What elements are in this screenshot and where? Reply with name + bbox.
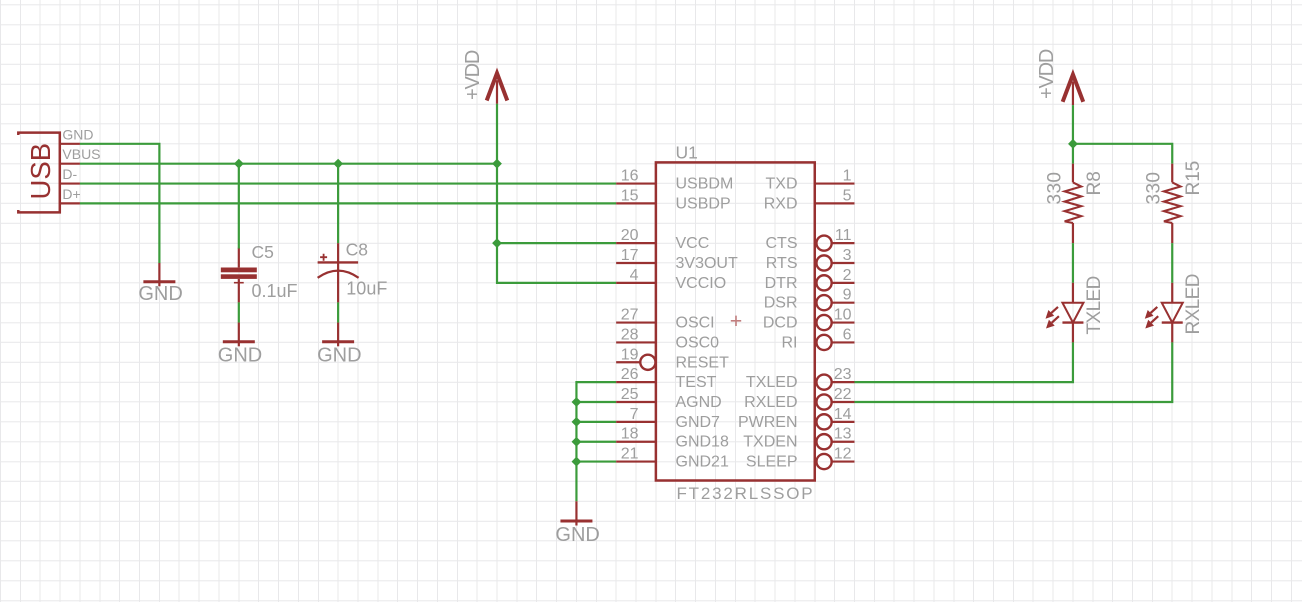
pin 13 TXDEN of U1 <box>816 434 831 449</box>
pin 26 TEST of U1 <box>616 381 656 383</box>
svg-text:13: 13 <box>834 426 852 443</box>
wire VBUS to C5 <box>238 164 240 249</box>
svg-text:GND21: GND21 <box>676 454 729 471</box>
svg-text:RXD: RXD <box>764 195 798 212</box>
pin 21 GND21 of U1 <box>616 460 656 462</box>
pin 12 SLEEP of U1 <box>816 454 831 469</box>
wire TXLED to pin 23 <box>854 342 1072 382</box>
svg-text:GND: GND <box>138 283 182 305</box>
pin 17 3V3OUT of U1 <box>616 262 656 264</box>
junction VBUS/C8 <box>333 159 343 169</box>
svg-text:9: 9 <box>843 287 852 304</box>
wire R8 to TXLED <box>1072 243 1074 283</box>
ground GND3 (C8) <box>322 323 354 347</box>
supply +VDD (left) arrow <box>487 73 508 104</box>
svg-text:RESET: RESET <box>676 354 730 371</box>
pin 14 PWREN of U1 <box>816 414 831 429</box>
wire C5 to ground <box>238 302 240 322</box>
pin 6 RI of U1 <box>816 335 831 350</box>
wire +VDD to VBUS/VCC/VCCIO <box>497 104 616 283</box>
svg-text:SLEEP: SLEEP <box>746 454 798 471</box>
svg-text:D-: D- <box>62 166 77 182</box>
svg-text:7: 7 <box>630 406 639 423</box>
svg-text:14: 14 <box>834 406 852 423</box>
svg-text:10uF: 10uF <box>346 278 387 298</box>
pin 28 OSC0 of U1 <box>616 341 656 343</box>
svg-text:21: 21 <box>621 446 639 463</box>
pin 23 TXLED of U1 <box>816 375 831 390</box>
svg-text:FT232RLSSOP: FT232RLSSOP <box>677 484 815 503</box>
svg-text:TXD: TXD <box>766 176 798 193</box>
wire USBDP net (D+ to pin 15) <box>80 202 616 204</box>
svg-text:RI: RI <box>782 334 798 351</box>
pin 15 USBDP of U1 <box>616 202 656 204</box>
pin VBUS of USB connector <box>60 163 80 165</box>
svg-text:TXLED: TXLED <box>1084 276 1105 334</box>
pin 16 USBDM of U1 <box>616 182 656 184</box>
junction chain/25 <box>572 397 582 407</box>
LED TXLED <box>1072 283 1074 303</box>
wire GND21 to chain <box>576 460 616 462</box>
svg-text:5: 5 <box>843 187 852 204</box>
svg-text:330: 330 <box>1144 172 1165 205</box>
junction chain/21 <box>572 457 582 467</box>
wire VDD to R15 branch <box>1073 144 1172 164</box>
svg-text:TEST: TEST <box>676 374 717 391</box>
junction chain/7 <box>572 417 582 427</box>
svg-text:CTS: CTS <box>766 235 798 252</box>
svg-text:VCCIO: VCCIO <box>676 275 727 292</box>
pin 19 RESET of U1 <box>616 361 640 363</box>
svg-text:10: 10 <box>834 307 852 324</box>
svg-text:U1: U1 <box>676 142 698 162</box>
IC U1 origin cross <box>731 316 741 326</box>
svg-text:DSR: DSR <box>764 295 798 312</box>
pin 20 VCC of U1 <box>616 242 656 244</box>
pin D- of USB connector <box>60 182 80 184</box>
pin 10 DCD of U1 <box>816 315 831 330</box>
svg-text:28: 28 <box>621 326 639 343</box>
svg-text:22: 22 <box>834 386 852 403</box>
svg-text:+VDD: +VDD <box>462 50 484 100</box>
svg-text:USB: USB <box>25 143 56 200</box>
svg-text:16: 16 <box>621 168 639 185</box>
svg-text:GND: GND <box>555 524 599 546</box>
pin 22 RXLED of U1 <box>816 394 831 409</box>
svg-text:RXLED: RXLED <box>1183 274 1204 334</box>
resistor R15 <box>1171 164 1173 183</box>
svg-text:USBDP: USBDP <box>676 195 731 212</box>
pin 27 OSCI of U1 <box>616 321 656 323</box>
svg-text:11: 11 <box>835 227 852 244</box>
svg-text:VBUS: VBUS <box>62 146 100 162</box>
junction VDD/VCC <box>492 238 502 248</box>
pin 3 RTS of U1 <box>816 255 831 270</box>
svg-text:6: 6 <box>843 326 852 343</box>
supply +VDD (right) arrow <box>1063 75 1084 106</box>
wire VBUS net <box>80 163 497 165</box>
svg-text:3: 3 <box>843 247 852 264</box>
svg-text:27: 27 <box>621 307 639 324</box>
wire VCC branch to pin 20 <box>497 242 616 244</box>
svg-text:2: 2 <box>843 267 852 284</box>
svg-text:RTS: RTS <box>766 255 798 272</box>
svg-text:3V3OUT: 3V3OUT <box>676 255 738 272</box>
svg-text:PWREN: PWREN <box>738 414 798 431</box>
svg-text:D+: D+ <box>62 186 80 202</box>
svg-text:1: 1 <box>843 168 852 185</box>
pin 11 CTS of U1 <box>816 236 831 251</box>
svg-text:25: 25 <box>621 386 639 403</box>
junction chain/18 <box>572 437 582 447</box>
svg-text:0.1uF: 0.1uF <box>252 281 298 301</box>
IC U1 box <box>656 162 815 480</box>
svg-text:GND18: GND18 <box>676 434 729 451</box>
LED RXLED <box>1171 283 1173 303</box>
wire +VDD down to junction <box>1072 105 1074 144</box>
connector X1 USB body <box>18 133 60 213</box>
pin GND of USB connector <box>60 143 80 145</box>
wire GND18 to chain <box>576 441 616 443</box>
svg-text:12: 12 <box>834 446 852 463</box>
junction VBUS/C5 <box>234 159 244 169</box>
junction +VDD/VBUS <box>492 159 502 169</box>
svg-text:OSCI: OSCI <box>676 315 715 332</box>
ground GND4 (IC) <box>560 501 592 525</box>
wire GND net from USB <box>80 144 159 263</box>
svg-text:GND7: GND7 <box>676 414 721 431</box>
svg-text:DTR: DTR <box>765 275 798 292</box>
svg-text:R8: R8 <box>1084 171 1105 195</box>
wire C8 to ground <box>337 302 339 322</box>
svg-text:330: 330 <box>1044 172 1065 205</box>
svg-text:17: 17 <box>621 247 639 264</box>
svg-text:GND: GND <box>62 126 93 142</box>
svg-text:C8: C8 <box>346 240 368 260</box>
resistor R8 <box>1072 164 1074 183</box>
ground GND2 (C5) <box>223 323 255 347</box>
wire RXLED to pin 22 <box>854 342 1172 402</box>
capacitor C8 (polarized) <box>318 243 359 302</box>
wire USBDM net (D- to pin 16) <box>80 182 616 184</box>
pin 5 RXD of U1 <box>815 202 855 204</box>
svg-text:R15: R15 <box>1183 161 1204 196</box>
svg-text:+VDD: +VDD <box>1036 49 1058 99</box>
svg-text:RXLED: RXLED <box>744 394 797 411</box>
wire VBUS to C8 <box>337 164 339 243</box>
pin 18 GND18 of U1 <box>616 441 656 443</box>
capacitor C5 <box>234 248 244 303</box>
svg-text:20: 20 <box>621 227 639 244</box>
wire R15 to RXLED <box>1171 243 1173 283</box>
svg-text:26: 26 <box>621 366 639 383</box>
svg-text:DCD: DCD <box>763 315 798 332</box>
svg-text:C5: C5 <box>252 242 274 262</box>
svg-text:4: 4 <box>630 267 639 284</box>
pin D+ of USB connector <box>60 202 80 204</box>
ground GND1 (USB shield) <box>143 263 175 286</box>
pin 4 VCCIO of U1 <box>616 282 656 284</box>
svg-text:GND: GND <box>317 345 361 367</box>
svg-text:GND: GND <box>218 345 262 367</box>
svg-text:VCC: VCC <box>676 235 710 252</box>
junction VDD split <box>1068 139 1078 149</box>
wire VDD to R8 <box>1072 144 1074 164</box>
svg-text:23: 23 <box>834 366 852 383</box>
svg-text:OSC0: OSC0 <box>676 334 720 351</box>
svg-text:19: 19 <box>621 346 639 363</box>
pin 1 TXD of U1 <box>815 182 855 184</box>
svg-text:AGND: AGND <box>676 394 722 411</box>
wire GND7 to chain <box>576 421 616 423</box>
svg-text:15: 15 <box>621 187 639 204</box>
wire AGND to chain <box>576 401 616 403</box>
pin 9 DSR of U1 <box>816 295 831 310</box>
pin 2 DTR of U1 <box>816 275 831 290</box>
wire TEST/AGND/GND chain <box>576 382 616 501</box>
pin 7 GND7 of U1 <box>616 421 656 423</box>
svg-text:18: 18 <box>621 426 639 443</box>
svg-text:TXDEN: TXDEN <box>743 434 797 451</box>
svg-text:USBDM: USBDM <box>676 176 734 193</box>
svg-text:TXLED: TXLED <box>746 374 798 391</box>
pin 25 AGND of U1 <box>616 401 656 403</box>
